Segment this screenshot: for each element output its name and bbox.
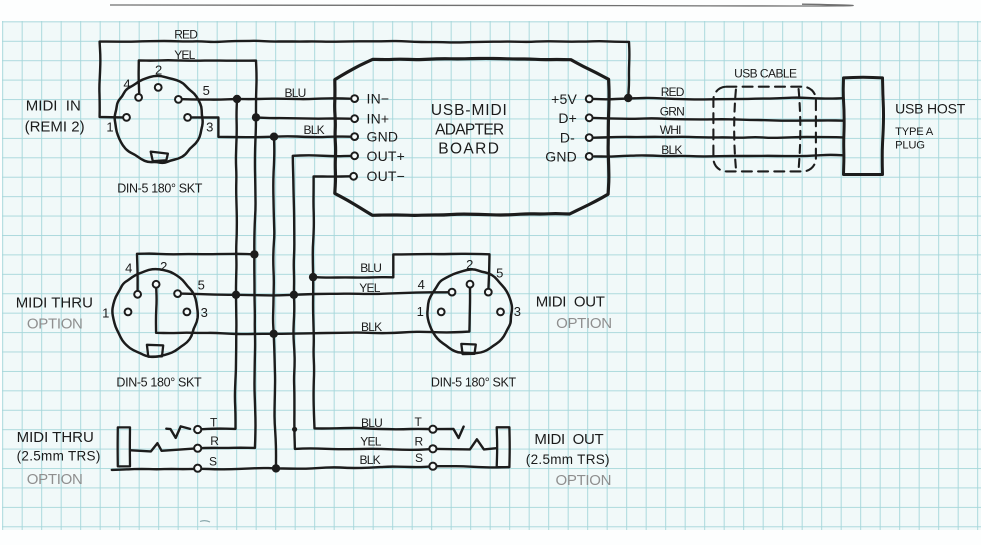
right TRS ring pin R — [429, 445, 436, 452]
connector J3: MIDI OUT DIN-5 socket body — [427, 269, 512, 353]
wire D+ to USB host GRN — [594, 118, 844, 121]
USB cable dashed shell — [713, 87, 816, 172]
junction node RED at +5V wire — [624, 94, 632, 102]
svg-text:2: 2 — [466, 257, 473, 272]
svg-text:1: 1 — [417, 304, 424, 319]
USB HOST plug box — [843, 77, 883, 174]
junction node BLU / THRU pin5 row — [232, 291, 240, 299]
left TRS tip pin T — [194, 426, 201, 433]
USB cable inner dashed end cap right — [799, 89, 801, 169]
wire IN+ branch from YEL node to board IN+ pin — [256, 118, 350, 119]
wire BLK shield row THRU pin2 to OUT pin2 — [156, 284, 470, 334]
wire OUT- from board pin down to right TRS T — [313, 176, 433, 429]
svg-text:USB-MIDI: USB-MIDI — [431, 102, 508, 119]
svg-text:ADAPTER: ADAPTER — [435, 122, 504, 139]
junction node BLK / shield row — [270, 330, 278, 338]
svg-text:BLK: BLK — [360, 453, 381, 467]
MIDI THRU pin 3 — [184, 309, 191, 316]
svg-text:BLU: BLU — [285, 86, 306, 100]
svg-text:5: 5 — [496, 266, 503, 281]
svg-text:BLK: BLK — [661, 143, 682, 157]
svg-text:3: 3 — [514, 304, 521, 319]
MIDI IN pin 1 — [123, 114, 130, 121]
wire BLU: MIDI IN pin5 to board IN- pin — [183, 98, 350, 99]
board pin D- — [586, 134, 593, 141]
svg-text:TYPE A: TYPE A — [895, 126, 934, 138]
scan speck bottom — [200, 521, 210, 522]
svg-text:OPTION: OPTION — [556, 472, 612, 489]
svg-text:(2.5mm TRS): (2.5mm TRS) — [526, 452, 610, 467]
svg-text:R: R — [415, 435, 424, 449]
connector J2: MIDI THRU DIN-5 socket body — [112, 269, 197, 357]
svg-text:MIDI THRU: MIDI THRU — [16, 295, 93, 312]
junction node OUT- / BLU jumper — [309, 273, 317, 281]
MIDI THRU pin 4 — [134, 291, 141, 298]
MIDI THRU pin 1 — [125, 309, 132, 316]
svg-text:D+: D+ — [558, 110, 577, 126]
wire BLU vertical branch down to left TRS T — [198, 99, 237, 429]
svg-text:YEL: YEL — [360, 435, 381, 449]
svg-text:OPTION: OPTION — [556, 315, 612, 332]
svg-text:OUT−: OUT− — [367, 168, 406, 184]
MIDI IN pin 2 — [155, 84, 162, 91]
wire OUT+ from board pin down to right TRS R — [293, 155, 433, 449]
board pin GND — [351, 133, 358, 140]
svg-text:RED: RED — [174, 27, 198, 41]
svg-text:RED: RED — [661, 85, 685, 99]
board pin IN- — [351, 95, 358, 102]
svg-text:(REMI 2): (REMI 2) — [25, 118, 85, 135]
ink blob on OUT+ vertical — [292, 427, 297, 432]
svg-text:T: T — [210, 415, 218, 429]
MIDI THRU notch — [147, 345, 163, 357]
wire BLU jumper to MIDI OUT pin5 — [313, 254, 489, 292]
right TRS tip pin T — [429, 426, 436, 433]
left TRS sleeve pin S — [194, 465, 201, 472]
board pin GND right — [586, 153, 593, 160]
svg-text:BLK: BLK — [361, 320, 382, 334]
junction node OUT+ / MIDI OUT pin4 row — [290, 291, 298, 299]
wire YEL: MIDI IN pin4 up across down through IN+ node and THRU pin4 node to left TRS R — [139, 60, 257, 448]
svg-text:BLK: BLK — [304, 123, 325, 137]
svg-text:4: 4 — [125, 261, 132, 276]
junction node YEL / THRU pin4 — [250, 250, 258, 258]
junction node on YEL at IN+ row — [252, 113, 260, 121]
wire BLK vertical branch down through shield row to S row — [273, 137, 276, 469]
board pin OUT- — [350, 173, 357, 180]
svg-text:IN+: IN+ — [367, 110, 390, 126]
svg-text:3: 3 — [206, 119, 213, 134]
right TRS sleeve pin S — [429, 463, 436, 470]
left TRS ring pin R — [194, 445, 201, 452]
svg-text:S: S — [415, 451, 423, 465]
svg-text:DIN-5 180° SKT: DIN-5 180° SKT — [431, 375, 517, 389]
svg-text:OPTION: OPTION — [27, 471, 83, 488]
wire RED: MIDI IN pin1 up across top down to +5V node — [99, 41, 629, 118]
svg-text:5: 5 — [198, 278, 205, 293]
junction node BLK / S row — [272, 464, 280, 472]
svg-text:2: 2 — [155, 63, 162, 78]
svg-text:OPTION: OPTION — [27, 315, 83, 332]
board pin IN+ — [351, 115, 358, 122]
svg-text:DIN-5 180° SKT: DIN-5 180° SKT — [116, 376, 202, 390]
MIDI OUT pin 5 — [485, 289, 492, 296]
svg-text:MIDI IN: MIDI IN — [26, 97, 81, 114]
junction node on BLK at GND row — [270, 133, 278, 141]
svg-text:YEL: YEL — [174, 48, 195, 62]
svg-text:4: 4 — [123, 77, 130, 92]
wire +5V to USB host RED — [594, 98, 844, 100]
svg-text:1: 1 — [106, 119, 113, 134]
svg-text:USB CABLE: USB CABLE — [734, 66, 797, 80]
svg-text:OUT+: OUT+ — [367, 148, 406, 164]
MIDI IN pin 4 — [135, 94, 142, 101]
wire MIDI THRU pin5 across to MIDI OUT pin4 — [178, 292, 452, 295]
svg-text:MIDI OUT: MIDI OUT — [536, 293, 605, 310]
MIDI IN pin 3 — [184, 114, 191, 121]
svg-text:BLU: BLU — [361, 416, 382, 430]
svg-text:1: 1 — [102, 306, 109, 321]
MIDI THRU pin 2 — [153, 281, 160, 288]
board pin OUT+ — [351, 152, 358, 159]
IC U1: USB-MIDI adapter board outline — [335, 58, 609, 215]
svg-text:MIDI THRU: MIDI THRU — [17, 429, 94, 446]
svg-text:GND: GND — [367, 128, 399, 144]
svg-text:S: S — [209, 455, 217, 469]
MIDI IN pin 5 — [175, 96, 182, 103]
svg-text:DIN-5 180° SKT: DIN-5 180° SKT — [117, 181, 203, 195]
svg-text:5: 5 — [203, 83, 210, 98]
svg-text:PLUG: PLUG — [895, 139, 925, 151]
wire MIDI THRU pin4 up to YEL node — [137, 254, 254, 295]
MIDI OUT notch — [461, 344, 476, 354]
scan artifact line top — [110, 4, 853, 6]
wire BLK: MIDI IN pin3 to board GND pin — [192, 117, 350, 137]
svg-text:IN−: IN− — [367, 90, 390, 106]
wire S row common sleeve — [112, 466, 509, 470]
MIDI OUT pin 1 — [438, 309, 445, 316]
svg-text:4: 4 — [418, 277, 425, 292]
connector J1: MIDI IN DIN-5 socket body — [115, 76, 203, 163]
svg-text:USB HOST: USB HOST — [895, 101, 966, 117]
svg-text:(2.5mm TRS): (2.5mm TRS) — [17, 449, 101, 464]
svg-text:GND: GND — [545, 148, 577, 164]
svg-text:R: R — [210, 434, 219, 448]
svg-text:2: 2 — [160, 259, 167, 274]
junction node on BLU at IN- row — [233, 95, 241, 103]
right TRS R switch contact — [437, 439, 497, 449]
svg-text:3: 3 — [201, 305, 208, 320]
svg-text:GRN: GRN — [660, 104, 684, 118]
board pin D+ — [586, 114, 593, 121]
svg-text:BOARD: BOARD — [438, 141, 500, 158]
MIDI IN notch — [151, 152, 168, 162]
svg-text:D-: D- — [560, 130, 575, 146]
svg-text:MIDI OUT: MIDI OUT — [534, 431, 603, 448]
left TRS R switch contact — [131, 443, 198, 451]
left TRS jack sleeve bracket — [118, 427, 130, 466]
MIDI OUT pin 4 — [449, 289, 456, 296]
svg-text:+5V: +5V — [551, 91, 577, 107]
svg-text:BLU: BLU — [360, 261, 381, 275]
svg-text:WHI: WHI — [660, 123, 681, 137]
wire D- to USB host WHI — [594, 137, 844, 138]
svg-text:YEL: YEL — [359, 281, 380, 295]
board pin +5V — [586, 96, 593, 103]
wire GND to USB host BLK — [594, 155, 843, 157]
right TRS T switch contact — [437, 427, 464, 438]
USB cable inner dashed end cap left — [734, 90, 736, 169]
MIDI OUT pin 3 — [497, 309, 504, 316]
left TRS T switch contact — [166, 426, 190, 438]
MIDI THRU pin 5 — [174, 290, 181, 297]
right TRS jack sleeve bracket — [497, 427, 510, 467]
MIDI OUT pin 2 — [467, 281, 474, 288]
